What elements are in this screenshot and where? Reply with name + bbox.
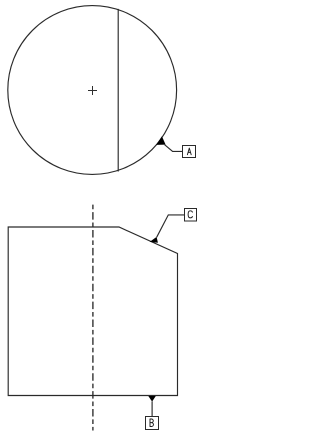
chord line (edge of flat) [117, 9, 119, 172]
label text A [187, 148, 191, 155]
leader wire to B [151, 401, 153, 416]
bottom view outline (chamfered block) [8, 227, 177, 396]
datum label box B [146, 417, 159, 430]
leader wire to C [157, 215, 184, 237]
datum B triangle [148, 396, 156, 402]
centerline (dash-dot axis) [92, 205, 94, 431]
datum A triangle [156, 136, 166, 145]
datum label box C [185, 209, 197, 222]
label text C [188, 211, 192, 218]
leader wire to A [165, 145, 183, 152]
circle (top view outline) [8, 6, 177, 175]
datum label box A [183, 146, 196, 158]
datum C triangle [150, 237, 158, 243]
center mark cross [88, 86, 97, 95]
label text B [150, 419, 153, 427]
